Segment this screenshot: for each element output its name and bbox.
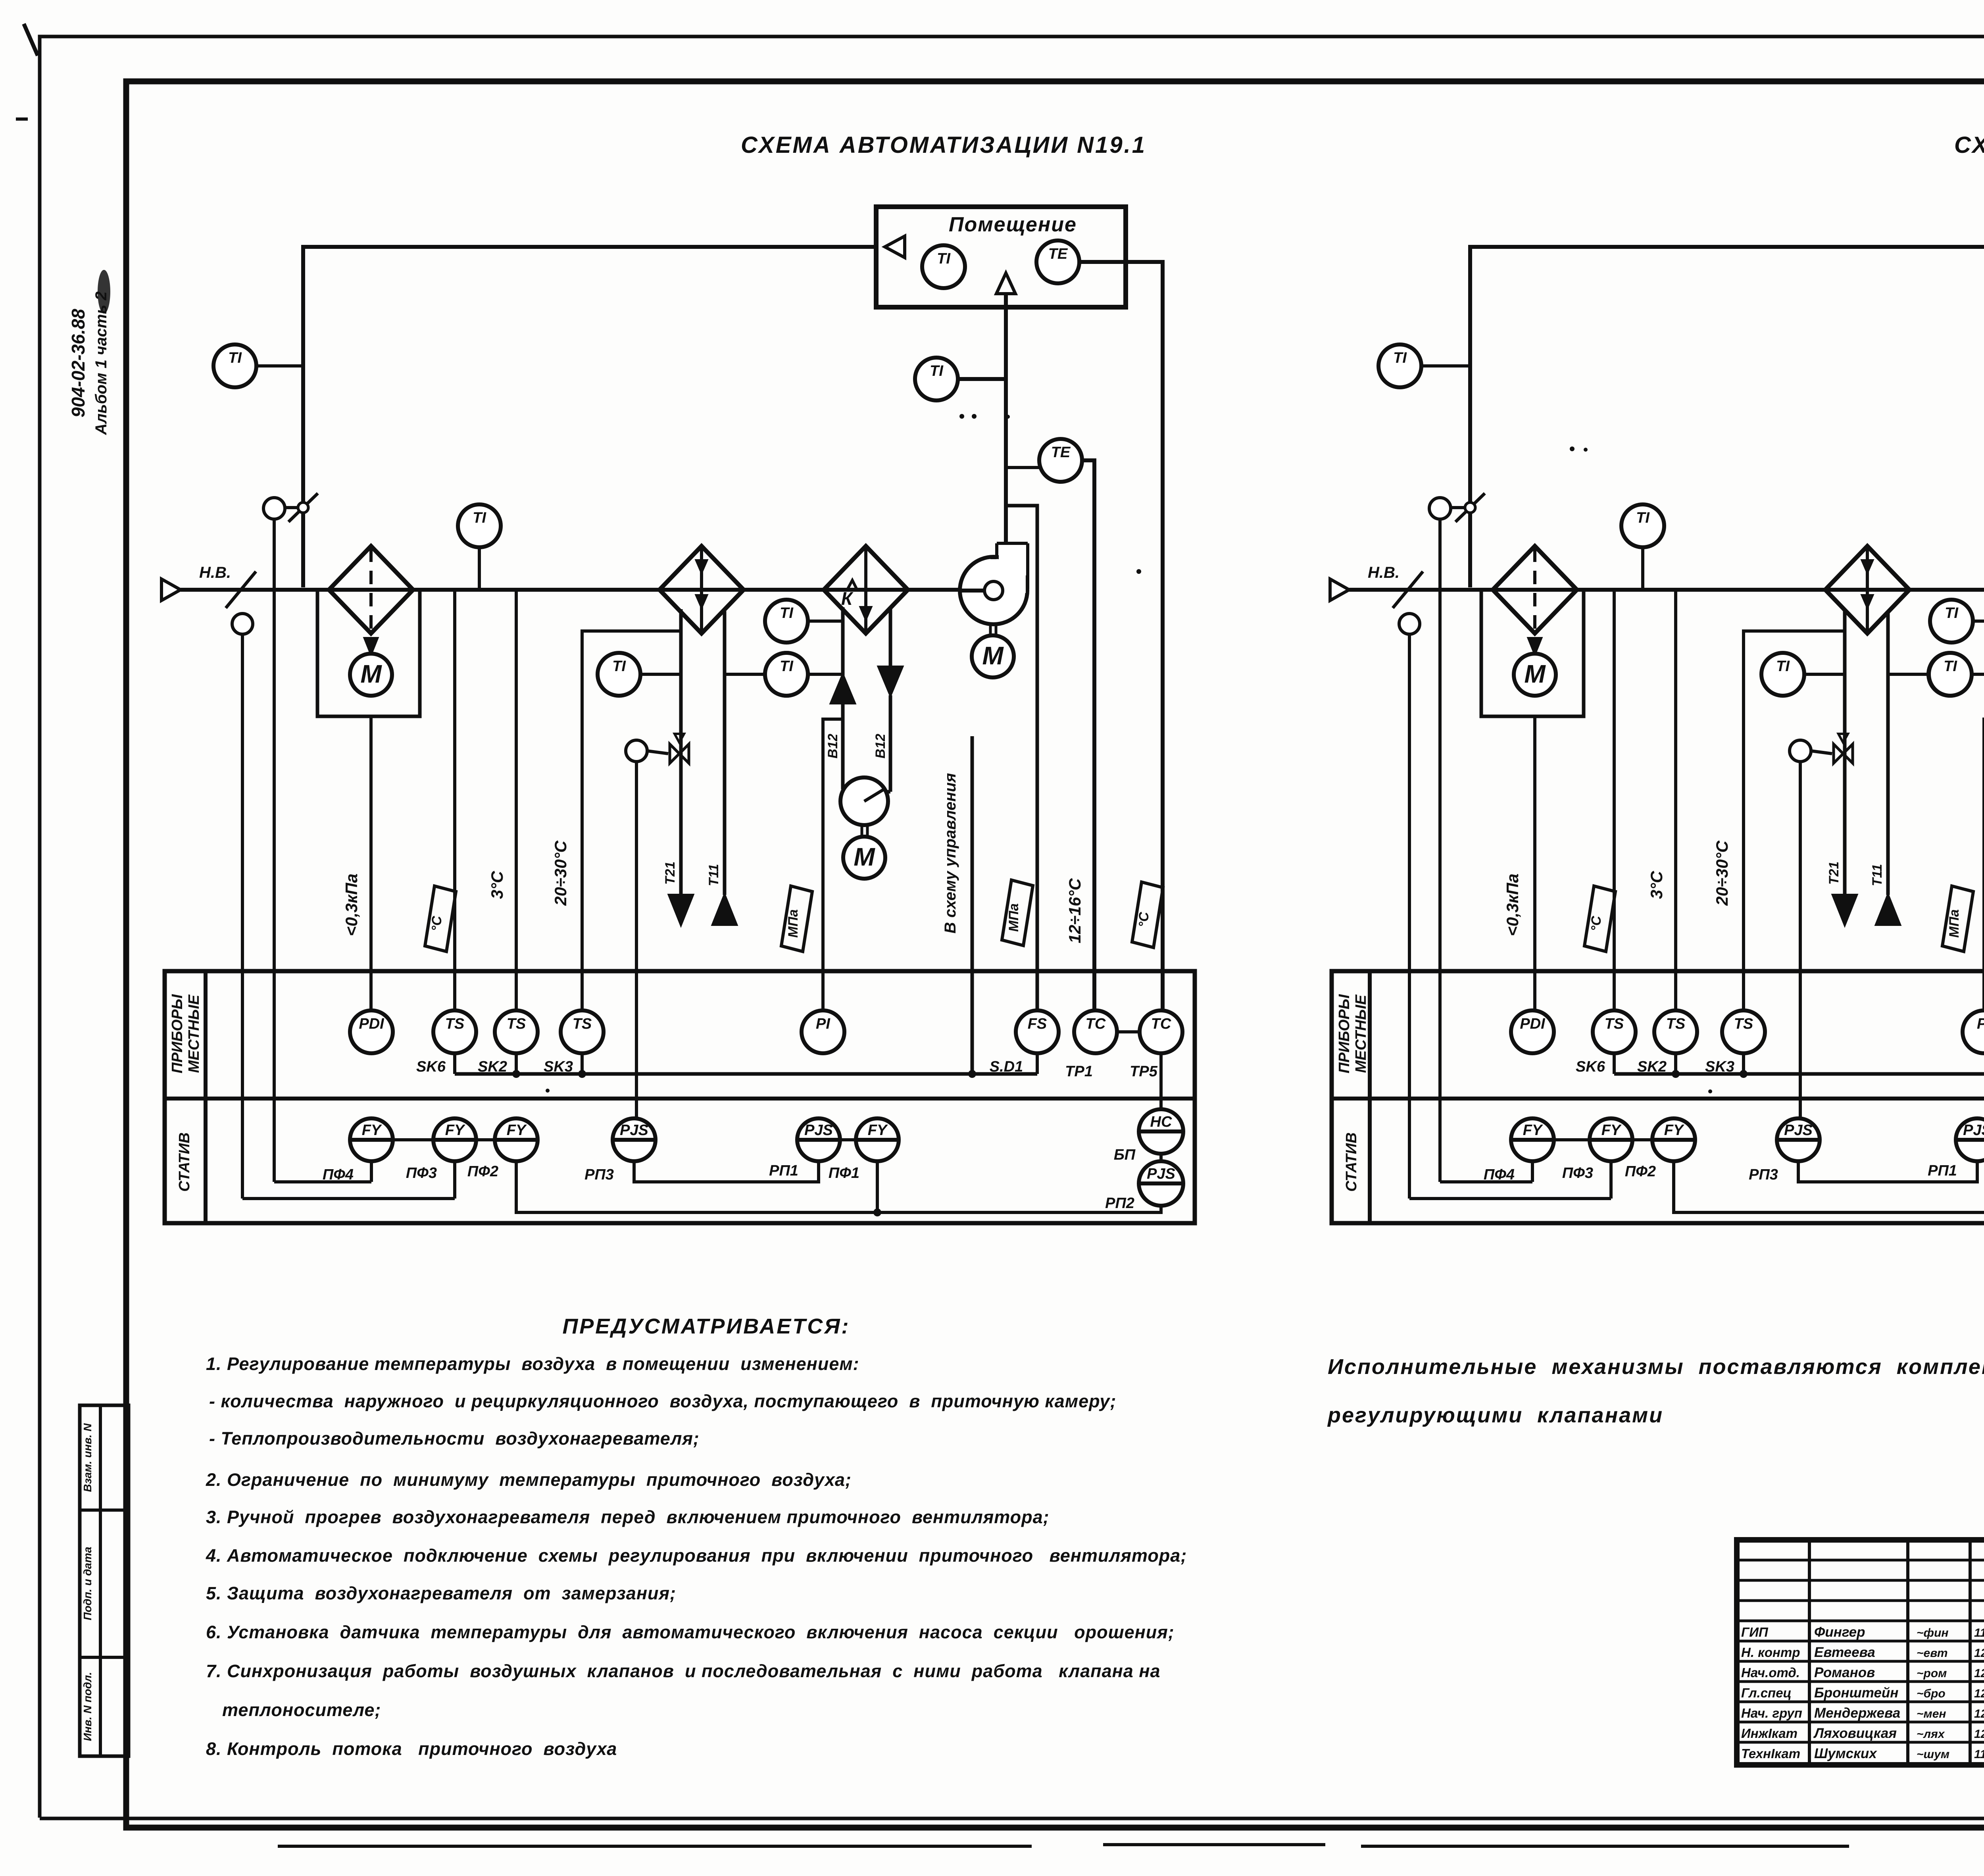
svg-text:ТР1: ТР1 — [1065, 1063, 1093, 1080]
instrument TI room 19.1 — [922, 245, 965, 288]
scan specks — [959, 414, 964, 419]
wire РП3 to РП1 19.2 — [1798, 1161, 1977, 1182]
air heater diamond 19.2 — [1825, 546, 1909, 633]
svg-text:FY: FY — [1664, 1122, 1685, 1139]
wire main air duct 19.2 — [1349, 588, 1984, 592]
instrument HC БП 19.1 — [1139, 1109, 1183, 1154]
svg-text:Бронштейн: Бронштейн — [1814, 1685, 1898, 1701]
svg-text:5. Защита воздухонагревателя: 5. Защита воздухонагревателя от замерзан… — [206, 1583, 676, 1603]
svg-text:TS: TS — [507, 1016, 526, 1032]
svg-text:SK6: SK6 — [416, 1058, 446, 1075]
svg-text:°С: °С — [429, 916, 444, 931]
svg-text:ТехнIкат: ТехнIкат — [1741, 1746, 1800, 1761]
svg-text:НС: НС — [1150, 1114, 1172, 1130]
signal arrow into room 19.1 — [885, 236, 905, 258]
svg-text:ПФ2: ПФ2 — [467, 1163, 498, 1180]
wire PI sensing line 19.1 — [823, 719, 843, 1010]
instrument rows box 19.2 — [1332, 971, 1984, 1223]
svg-text:TS: TS — [1605, 1016, 1624, 1032]
svg-text:РП3: РП3 — [1749, 1166, 1778, 1183]
svg-text:Нач.отд.: Нач.отд. — [1741, 1665, 1800, 1680]
svg-text:11.88: 11.88 — [1974, 1626, 1984, 1639]
wire TS SK3 sensor line 19.2 — [1744, 631, 1845, 1010]
wire control line to room 19.2 — [1470, 247, 1984, 587]
instrument TE room 19.1 — [1036, 241, 1079, 283]
instrument FY ПФ3 19.2 — [1590, 1118, 1632, 1161]
motor M air valve 19.1 — [350, 654, 392, 696]
instrument TC TP5 19.1 — [1140, 1010, 1182, 1053]
instrument PJS РП1 19.1 — [797, 1118, 840, 1161]
svg-text:12.87: 12.87 — [1974, 1647, 1984, 1660]
svg-text:Фингер: Фингер — [1814, 1624, 1865, 1640]
svg-text:PDI: PDI — [359, 1016, 384, 1032]
wire valve motor to PDI 19.2 — [1533, 716, 1536, 1010]
instrument FY ПФ4 19.2 — [1511, 1118, 1554, 1161]
svg-text:ПФ3: ПФ3 — [406, 1165, 437, 1181]
svg-text:Взам. инв. N: Взам. инв. N — [81, 1423, 94, 1492]
svg-text:ГИП: ГИП — [1741, 1625, 1769, 1639]
pipe T11 heating return 19.1 — [723, 611, 727, 895]
inlet damper slash 19.2 — [1393, 571, 1423, 608]
svg-text:Т21: Т21 — [1826, 862, 1842, 885]
svg-text:FY: FY — [1601, 1122, 1622, 1139]
instrument PDI 19.1 — [350, 1010, 393, 1053]
instrument TI after chamber 19.2 — [1929, 653, 1972, 696]
svg-text:TS: TS — [1734, 1016, 1753, 1032]
svg-text:РП1: РП1 — [769, 1162, 798, 1179]
svg-text:4. Автоматическое подключение: 4. Автоматическое подключение схемы регу… — [206, 1545, 1187, 1566]
instrument TI after chamber 19.1 — [765, 653, 808, 696]
svg-text:TC: TC — [1151, 1016, 1171, 1032]
svg-text:СТАТИВ: СТАТИВ — [1343, 1132, 1360, 1191]
instrument TI after filter 19.2 — [1621, 504, 1664, 547]
svg-text:SK6: SK6 — [1576, 1058, 1605, 1075]
svg-text:К: К — [841, 588, 854, 609]
pressure tap circle upper 19.1 — [263, 498, 285, 519]
instrument TE supply duct 19.1 — [1039, 439, 1082, 482]
svg-text:М: М — [854, 843, 875, 871]
instrument TI after filter 19.1 — [458, 504, 501, 547]
svg-text:3°С: 3°С — [488, 871, 506, 899]
svg-text:PJS: PJS — [1784, 1122, 1813, 1139]
attribute table — [80, 1405, 129, 1756]
svg-text:ПФ1: ПФ1 — [829, 1165, 859, 1181]
instrument TI heater return 19.2 — [1928, 653, 1971, 696]
pipe T21 heating supply 19.1 — [679, 609, 683, 895]
svg-text:TI: TI — [1945, 605, 1959, 621]
svg-text:TC: TC — [1086, 1016, 1106, 1032]
svg-text:TI: TI — [780, 658, 794, 675]
svg-text:°С: °С — [1589, 916, 1604, 931]
instrument TS SK6 19.1 — [433, 1010, 476, 1053]
svg-text:БП: БП — [1114, 1147, 1136, 1163]
svg-text:TI: TI — [473, 510, 486, 526]
wire valve motor to PDI 19.1 — [369, 716, 373, 1010]
supply fan 19.1 — [960, 557, 1027, 624]
instrument FY ПФ4 19.1 — [350, 1118, 393, 1161]
instrument TI heater supply 19.2 — [1761, 653, 1804, 696]
instrument PJS РП1 19.2 — [1956, 1118, 1984, 1161]
svg-text:М: М — [982, 641, 1004, 670]
instrument TI heater supply 19.1 — [598, 653, 640, 696]
svg-text:Альбом 1 часть 2: Альбом 1 часть 2 — [92, 291, 110, 435]
svg-text:Ляховицкая: Ляховицкая — [1813, 1726, 1897, 1741]
svg-text:FY: FY — [445, 1122, 466, 1139]
wire РП3 to РП1 19.1 — [634, 1161, 819, 1182]
svg-text:PDI: PDI — [1520, 1016, 1546, 1032]
svg-text:Нач. груп: Нач. груп — [1741, 1706, 1802, 1720]
wire TE room to column 19.1 — [1079, 262, 1163, 1010]
instrument PI 19.2 — [1963, 1010, 1984, 1053]
svg-text:Инв. N подл.: Инв. N подл. — [81, 1672, 94, 1741]
svg-text:~ром: ~ром — [1917, 1667, 1947, 1680]
wire to control circuit 19.1 — [971, 736, 974, 1074]
unit tag С sk6 19.2 — [1584, 886, 1615, 952]
svg-text:МПа: МПа — [786, 909, 801, 938]
svg-text:FY: FY — [362, 1122, 383, 1139]
irrigation chamber diamond К 19.1 — [824, 546, 908, 633]
title block grid — [1737, 1540, 1984, 1765]
unit tag MPa FS 19.1 — [1002, 880, 1033, 946]
wire TS SK3 sensor line 19.1 — [582, 631, 681, 1010]
wire main air duct 19.1 — [181, 588, 970, 592]
svg-text:3°С: 3°С — [1647, 871, 1666, 899]
svg-text:РП1: РП1 — [1928, 1162, 1957, 1179]
svg-text:Т11: Т11 — [1870, 864, 1885, 886]
instrument TS SK2 19.1 — [495, 1010, 538, 1053]
instrument FY ПФ2 19.1 — [495, 1118, 538, 1161]
instrument PJS РП2 19.1 — [1139, 1161, 1183, 1206]
svg-text:FS: FS — [1028, 1016, 1047, 1032]
svg-text:МЕСТНЫЕ: МЕСТНЫЕ — [186, 994, 202, 1073]
svg-text:Н.В.: Н.В. — [199, 564, 231, 581]
wire control line to room 19.1 — [303, 247, 876, 587]
air valve diamond with motor box 19.2 — [1493, 546, 1577, 633]
svg-text:FY: FY — [507, 1122, 527, 1139]
instrument TS SK6 19.2 — [1593, 1010, 1636, 1053]
valve actuator circle 19.2 — [1790, 740, 1811, 762]
damper actuator slash on control line 19.2 — [1451, 506, 1465, 509]
svg-text:8. Контроль потока приточно: 8. Контроль потока приточного воздуха — [206, 1739, 617, 1759]
unit tag C TP5 19.1 — [1132, 882, 1163, 948]
node Н.В. outside air inlet 19.1 — [161, 579, 181, 600]
svg-text:TI: TI — [780, 605, 794, 621]
pipe В12 supply 19.1 — [841, 607, 845, 700]
valve actuator circle 19.1 — [626, 740, 647, 762]
svg-text:МЕСТНЫЕ: МЕСТНЫЕ — [1353, 994, 1369, 1073]
svg-text:ИнжIкат: ИнжIкат — [1741, 1726, 1798, 1741]
svg-text:TS: TS — [445, 1016, 465, 1032]
wire row1 connector 19.2 — [1614, 1072, 1984, 1076]
svg-text:20÷30°С: 20÷30°С — [1713, 841, 1731, 906]
svg-text:12÷16°С: 12÷16°С — [1065, 878, 1084, 943]
svg-text:Т21: Т21 — [663, 862, 678, 885]
svg-text:Гл.спец: Гл.спец — [1741, 1686, 1792, 1700]
motor M pump 19.1 — [861, 825, 863, 837]
instrument FY ПФ1 19.1 — [856, 1118, 899, 1161]
svg-text:РП2: РП2 — [1105, 1195, 1134, 1212]
svg-text:7. Синхронизация работы возд: 7. Синхронизация работы воздушных клапан… — [206, 1661, 1161, 1681]
air valve diamond with motor box 19.1 — [329, 546, 413, 633]
wire row1 connector 19.1 — [455, 1072, 1037, 1076]
svg-text:12.88: 12.88 — [1974, 1728, 1984, 1741]
svg-text:TI: TI — [228, 350, 242, 366]
svg-text:Н. контр: Н. контр — [1741, 1645, 1800, 1660]
instrument PJS РП3 19.2 — [1777, 1118, 1820, 1161]
wire FY chain 19.1 — [393, 1138, 433, 1141]
svg-text:12.88: 12.88 — [1974, 1687, 1984, 1700]
svg-text:°С: °С — [1136, 912, 1152, 927]
svg-text:Подп. и дата: Подп. и дата — [81, 1547, 94, 1620]
control valve on T21 19.1 — [670, 744, 679, 763]
air heater diamond 19.1 — [659, 546, 744, 633]
wire FY chain 19.2 — [1554, 1138, 1590, 1141]
instrument PDI 19.2 — [1511, 1010, 1554, 1053]
wire TS SK2 sensor line 19.2 — [1674, 590, 1677, 1010]
svg-text:~мен: ~мен — [1917, 1707, 1946, 1720]
instrument TI before chamber 19.2 — [1930, 600, 1973, 643]
svg-text:~лях: ~лях — [1917, 1728, 1945, 1741]
svg-text:PJS: PJS — [620, 1122, 648, 1139]
wire fan discharge riser 19.1 — [1004, 541, 1008, 545]
svg-text:М: М — [360, 660, 382, 688]
svg-text:904-02-36.88: 904-02-36.88 — [68, 309, 88, 418]
svg-text:- Теплопроизводительности воз: - Теплопроизводительности воздухонагрева… — [209, 1428, 700, 1449]
svg-text:~бро: ~бро — [1917, 1687, 1946, 1700]
svg-text:В12: В12 — [825, 734, 840, 758]
svg-text:Евтеева: Евтеева — [1814, 1645, 1875, 1660]
wire ПФ2 ПФ1 РП2 19.2 — [1674, 1161, 1984, 1212]
svg-text:Т11: Т11 — [706, 864, 721, 886]
svg-text:12.88: 12.88 — [1974, 1707, 1984, 1720]
pipe T21 heating supply 19.2 — [1843, 609, 1847, 895]
svg-text:6. Установка датчика темпера: 6. Установка датчика температуры для авт… — [206, 1622, 1175, 1642]
supply riser arrow 19.1 — [996, 273, 1015, 294]
svg-text:В схему управления: В схему управления — [942, 773, 959, 933]
svg-text:теплоносителе;: теплоносителе; — [222, 1700, 381, 1720]
svg-text:Романов: Романов — [1814, 1665, 1875, 1680]
svg-text:TI: TI — [937, 250, 951, 267]
svg-text:В12: В12 — [873, 734, 888, 758]
svg-text:2. Ограничение по минимуму: 2. Ограничение по минимуму температуры п… — [206, 1470, 852, 1490]
svg-text:Н.В.: Н.В. — [1368, 564, 1400, 581]
instrument TI outside air 19.1 — [213, 344, 256, 387]
instrument TI before chamber 19.1 — [765, 600, 808, 643]
svg-text:~евт: ~евт — [1917, 1647, 1948, 1660]
instrument FY ПФ2 19.2 — [1652, 1118, 1695, 1161]
svg-text:Мендержева: Мендержева — [1814, 1705, 1900, 1721]
svg-text:М: М — [1524, 660, 1546, 688]
damper actuator slash on control line 19.1 — [285, 506, 298, 509]
instrument FY ПФ3 19.1 — [433, 1118, 476, 1161]
pipe T11 heating return 19.2 — [1886, 611, 1890, 895]
pressure tap circle below duct 19.1 — [232, 614, 253, 634]
svg-text:ПФ3: ПФ3 — [1562, 1165, 1593, 1181]
instrument PJS РП3 19.1 — [613, 1118, 656, 1161]
instrument TI outside air 19.2 — [1378, 344, 1421, 387]
svg-text:FY: FY — [1523, 1122, 1544, 1139]
svg-text:11.88: 11.88 — [1974, 1748, 1984, 1761]
wire TS SK6 sensor line 19.1 — [453, 590, 456, 1010]
unit tag MPa PI 19.2 — [1942, 886, 1973, 952]
instrument PI 19.1 — [802, 1010, 844, 1053]
bottom trim dashes — [278, 1845, 1032, 1848]
svg-text:FY: FY — [868, 1122, 888, 1139]
svg-text:3. Ручной прогрев воздухонаг: 3. Ручной прогрев воздухонагревателя пер… — [206, 1507, 1050, 1527]
wire branch to FS 19.1 — [1006, 506, 1037, 1010]
svg-text:TE: TE — [1051, 444, 1071, 461]
room box Помещение 19.1 — [876, 207, 1126, 307]
svg-text:TI: TI — [1393, 350, 1407, 366]
svg-text:Помещение: Помещение — [949, 213, 1077, 236]
svg-text:PJS: PJS — [1147, 1166, 1175, 1182]
svg-text:PJS: PJS — [1963, 1122, 1984, 1139]
svg-text:PJS: PJS — [804, 1122, 833, 1139]
svg-text:TI: TI — [1636, 510, 1650, 526]
svg-text:TI: TI — [930, 363, 944, 379]
motor M supply fan 19.1 — [989, 623, 992, 635]
svg-text:PI: PI — [1977, 1016, 1984, 1032]
svg-text:ПРИБОРЫ: ПРИБОРЫ — [1336, 994, 1353, 1073]
svg-text:регулирующими клапанами: регулирующими клапанами — [1327, 1403, 1663, 1427]
svg-text:TE: TE — [1048, 246, 1068, 262]
wire TS SK6 sensor line 19.2 — [1613, 590, 1616, 1010]
node Н.В. outside air inlet 19.2 — [1330, 579, 1349, 600]
instrument rows box 19.1 — [165, 971, 1195, 1223]
svg-text:TI: TI — [1776, 658, 1790, 675]
svg-text:ПФ4: ПФ4 — [1484, 1166, 1515, 1183]
instrument TS SK3 19.1 — [561, 1010, 604, 1053]
pressure tap circle upper 19.2 — [1429, 498, 1451, 519]
svg-text:ПРИБОРЫ: ПРИБОРЫ — [169, 994, 186, 1073]
svg-text:PI: PI — [816, 1016, 831, 1032]
svg-text:1. Регулирование температуры: 1. Регулирование температуры воздуха в п… — [206, 1354, 859, 1374]
instrument TI supply duct 19.1 — [915, 358, 958, 400]
instrument FS SD1 19.1 — [1016, 1010, 1059, 1053]
pressure tap circle below duct 19.2 — [1399, 614, 1420, 634]
svg-text:РП3: РП3 — [584, 1166, 614, 1183]
svg-text:СТАТИВ: СТАТИВ — [176, 1132, 193, 1191]
svg-text:МПа: МПа — [1947, 909, 1962, 938]
wire TS SK2 sensor line 19.1 — [515, 590, 518, 1010]
pipe В12 drain 19.1 — [889, 609, 892, 667]
svg-text:<0,3кПа: <0,3кПа — [1503, 874, 1522, 936]
svg-text:~шум: ~шум — [1917, 1748, 1949, 1761]
svg-text:ПФ4: ПФ4 — [323, 1166, 354, 1183]
control valve on T21 19.2 — [1834, 744, 1843, 763]
svg-text:ТР5: ТР5 — [1130, 1063, 1158, 1080]
svg-text:~фин: ~фин — [1917, 1626, 1949, 1639]
unit tag С sk6 19.1 — [425, 886, 456, 952]
irrigation pump 19.1 — [840, 777, 888, 825]
inlet damper slash 19.1 — [226, 571, 256, 608]
wire ПФ2 ПФ1 РП2 19.1 — [516, 1161, 1161, 1212]
svg-text:<0,3кПа: <0,3кПа — [342, 874, 361, 936]
svg-text:Исполнительные механизмы пос: Исполнительные механизмы поставляются ко… — [1328, 1355, 1984, 1379]
svg-text:12.87: 12.87 — [1974, 1667, 1984, 1680]
svg-text:TS: TS — [573, 1016, 592, 1032]
svg-text:TS: TS — [1666, 1016, 1686, 1032]
svg-text:СХЕМА АВТОМАТИЗАЦИИ N19.2: СХЕМА АВТОМАТИЗАЦИИ N19.2 — [1954, 132, 1984, 158]
svg-text:20÷30°С: 20÷30°С — [551, 841, 570, 906]
motor M air valve 19.2 — [1514, 654, 1556, 696]
instrument TS SK2 19.2 — [1654, 1010, 1697, 1053]
svg-text:- количества наружного и рец: - количества наружного и рециркуляционно… — [209, 1391, 1116, 1411]
instrument TI heater return 19.1 — [765, 653, 808, 696]
svg-text:Шумских: Шумских — [1814, 1746, 1877, 1761]
svg-text:TI: TI — [612, 658, 626, 675]
svg-text:МПа: МПа — [1006, 903, 1021, 932]
instrument TS SK3 19.2 — [1722, 1010, 1765, 1053]
svg-text:СХЕМА АВТОМАТИЗАЦИИ N19.1: СХЕМА АВТОМАТИЗАЦИИ N19.1 — [741, 132, 1146, 158]
svg-text:TI: TI — [1944, 658, 1957, 675]
svg-text:ПРЕДУСМАТРИВАЕТСЯ:: ПРЕДУСМАТРИВАЕТСЯ: — [562, 1314, 850, 1338]
svg-text:ПФ2: ПФ2 — [1625, 1163, 1656, 1180]
unit tag MPa PI 19.1 — [781, 886, 812, 952]
instrument TC TP1 19.1 — [1074, 1010, 1117, 1053]
